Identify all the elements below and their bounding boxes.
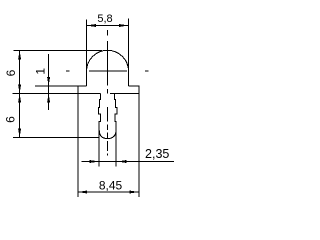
flange top right <box>129 85 139 87</box>
arrow 5,8 right <box>119 24 129 27</box>
arrow 1 upper (down to 86.2) <box>47 77 50 86</box>
arrow 6 bottom (down) <box>18 128 21 137</box>
svg-text:8,45: 8,45 <box>99 178 123 192</box>
dim line 8,45 <box>78 191 139 193</box>
dim line 5,8 <box>87 25 129 27</box>
arrow 1 lower (up to 93.5) <box>47 94 50 103</box>
arrow 5,8 left <box>87 24 97 27</box>
dim line 2,35 <box>82 161 175 163</box>
flange left side + 8,45 extension <box>77 86 79 197</box>
left leg outline with barbs <box>99 94 101 167</box>
arrow 6 mid upper (down) <box>18 84 21 93</box>
centerline horizontal main <box>89 70 127 72</box>
svg-text:5,8: 5,8 <box>97 13 112 25</box>
svg-text:2,35: 2,35 <box>145 147 169 161</box>
extension line 1-dim top / flange top left <box>35 85 87 87</box>
top extension line at dome apex <box>14 49 102 51</box>
extension line left wall (5,8) + body wall left <box>86 20 88 87</box>
arrow 6 mid lower (up) <box>18 94 21 103</box>
arrow 8,45 right <box>130 191 139 194</box>
extension line leg tip level <box>13 137 100 139</box>
right leg outline with barbs <box>115 94 117 167</box>
svg-text:6: 6 <box>4 116 18 123</box>
U notch between legs <box>99 130 116 139</box>
svg-text:6: 6 <box>4 69 18 76</box>
arrow 6 top (up) <box>18 50 21 59</box>
centerline vertical dash top <box>107 30 109 36</box>
flange right side + 8,45 extension <box>138 86 140 197</box>
dim line 1 <box>48 54 50 110</box>
centerline legs dashed <box>107 107 109 122</box>
centerline horizontal dash right <box>145 70 149 72</box>
extension line flange bottom level to left <box>13 93 101 95</box>
arrow 2,35 right (tip left) <box>117 160 126 163</box>
arrow 8,45 left <box>78 191 87 194</box>
extension line right wall (5,8) + body wall right <box>128 19 130 87</box>
dome arc <box>87 50 129 71</box>
flange bottom right segment <box>110 93 139 95</box>
svg-text:1: 1 <box>34 68 48 75</box>
left dim line (6 / 6) <box>19 50 21 137</box>
centerline horizontal dash left <box>66 70 70 72</box>
centerline vertical main <box>107 41 109 86</box>
arrow 2,35 left (tip right) <box>90 160 99 163</box>
